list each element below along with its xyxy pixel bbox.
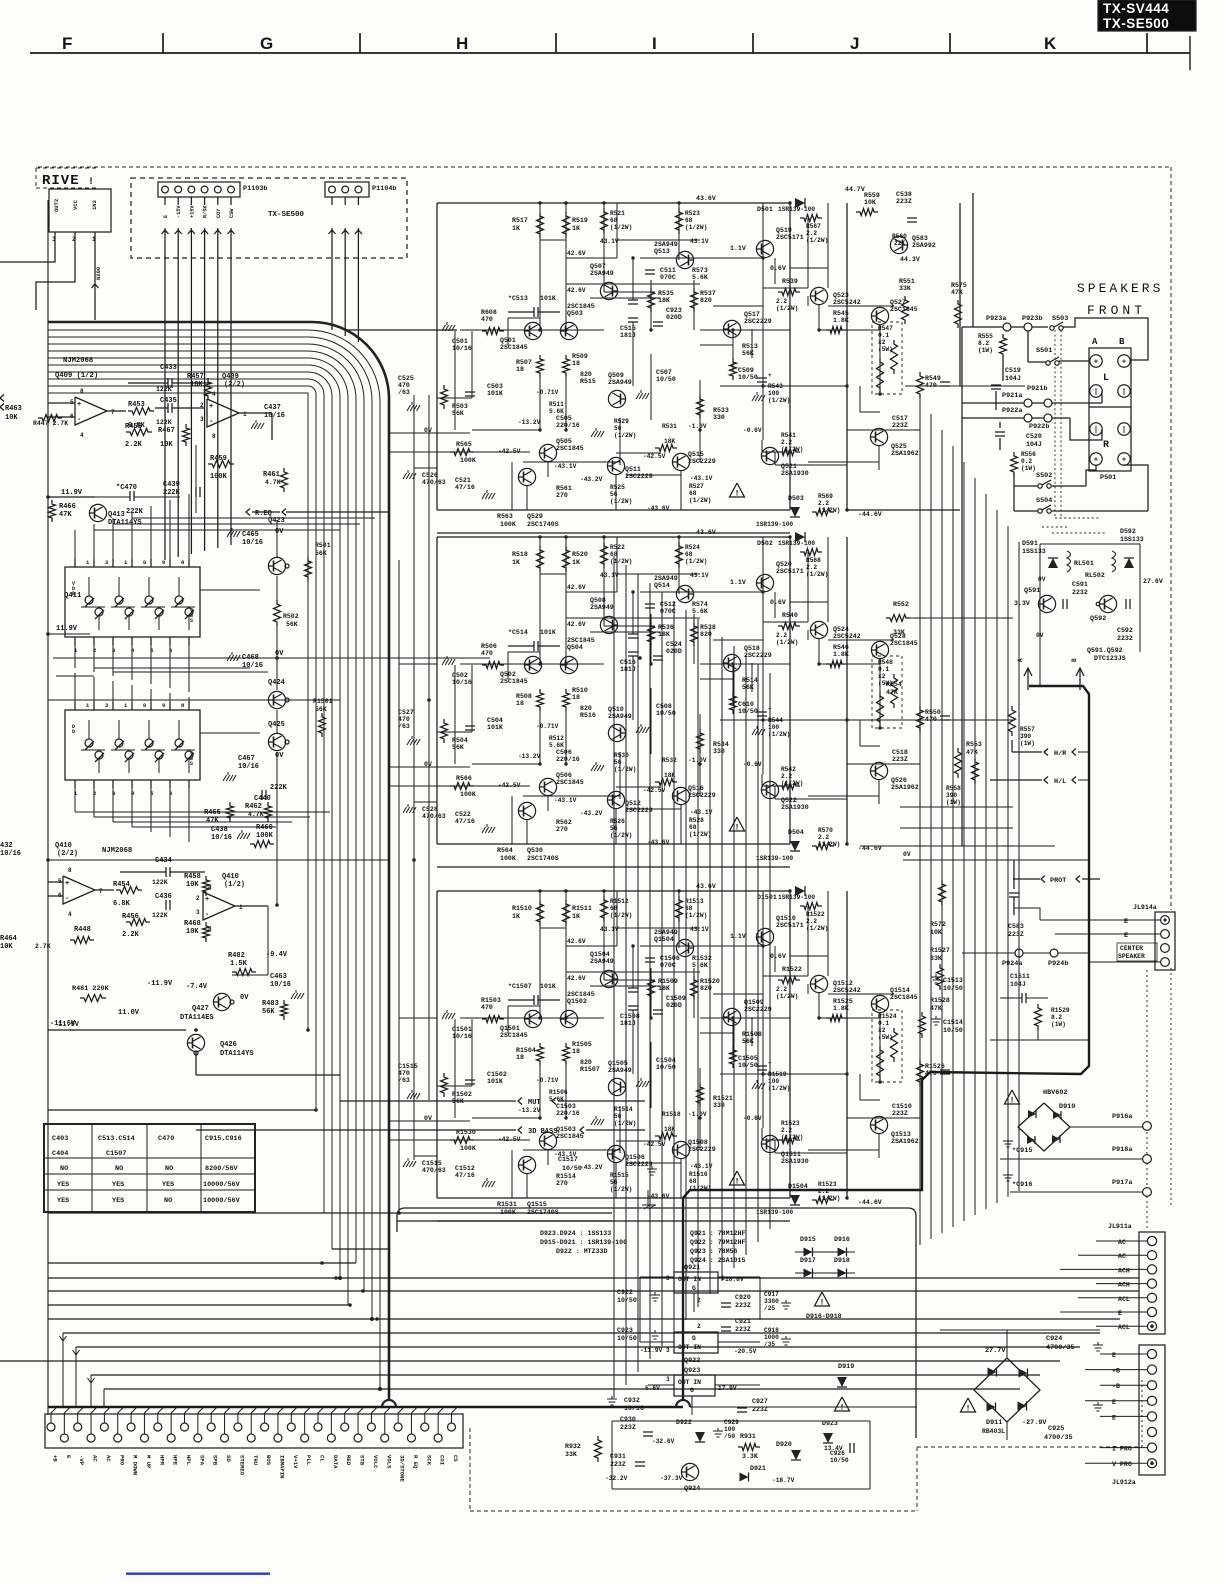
vertical feed wires to speaker section xyxy=(961,327,963,418)
svg-text:3: 3 xyxy=(666,1376,670,1383)
svg-text:/35: /35 xyxy=(764,1341,775,1348)
svg-text:R523: R523 xyxy=(685,210,700,217)
transistor channel1 driver xyxy=(518,468,535,485)
svg-text:7: 7 xyxy=(111,409,115,416)
svg-text:Q527: Q527 xyxy=(890,299,906,306)
svg-text:S503: S503 xyxy=(1052,315,1068,323)
svg-text:R501: R501 xyxy=(315,542,331,549)
svg-text:C512: C512 xyxy=(660,601,676,608)
svg-text:R1514: R1514 xyxy=(614,1106,633,1113)
svg-text:R1505: R1505 xyxy=(572,1041,592,1048)
svg-text:+: + xyxy=(768,706,772,713)
svg-text:181J: 181J xyxy=(620,1020,636,1027)
svg-text:C403: C403 xyxy=(52,1135,68,1143)
svg-text:2SC2229: 2SC2229 xyxy=(625,807,653,814)
connector P1103b xyxy=(158,182,240,197)
svg-text:G: G xyxy=(692,1335,696,1342)
capacitor C932 10/16 xyxy=(611,1396,613,1399)
svg-text:C1501: C1501 xyxy=(452,1026,472,1033)
svg-text:A: A xyxy=(1092,337,1098,347)
svg-text:7: 7 xyxy=(99,888,103,895)
svg-text:10/50: 10/50 xyxy=(738,708,758,715)
svg-text:68: 68 xyxy=(689,824,697,831)
svg-text:2.2: 2.2 xyxy=(776,986,787,993)
svg-text:P922b: P922b xyxy=(1029,423,1049,431)
svg-text:*C513: *C513 xyxy=(508,295,528,302)
svg-text:2SA1962: 2SA1962 xyxy=(891,1138,919,1145)
svg-text:C1505: C1505 xyxy=(738,1055,758,1062)
svg-text:NO: NO xyxy=(164,1197,172,1205)
svg-text:222K: 222K xyxy=(270,784,288,792)
transistor channel3 driver xyxy=(518,1156,535,1173)
svg-text:R464: R464 xyxy=(0,935,17,943)
svg-text:10K: 10K xyxy=(864,199,876,206)
svg-text:Q508: Q508 xyxy=(590,597,606,604)
channel3 internal verticals xyxy=(539,891,541,936)
svg-text:56: 56 xyxy=(610,1179,618,1186)
resistor R459 100K xyxy=(208,461,234,468)
svg-text:101K: 101K xyxy=(540,983,556,990)
svg-text:8: 8 xyxy=(212,433,216,440)
svg-text:R504: R504 xyxy=(452,737,468,744)
svg-text:22K: 22K xyxy=(894,240,905,247)
svg-text:-B: -B xyxy=(1112,1383,1120,1390)
op-amp Q409 (2/2) xyxy=(207,399,239,427)
svg-text:AC: AC xyxy=(1118,1239,1126,1246)
svg-text:R546: R546 xyxy=(833,644,849,651)
svg-text:2SA949: 2SA949 xyxy=(590,958,614,965)
svg-text:Q409: Q409 xyxy=(222,373,239,381)
svg-text:C515: C515 xyxy=(620,325,636,332)
svg-text:R537: R537 xyxy=(700,290,716,297)
svg-text:/63: /63 xyxy=(398,1077,410,1084)
resistor R1529 8.2 (1W) xyxy=(1035,1004,1042,1030)
svg-text:-18.7V: -18.7V xyxy=(772,1477,795,1484)
svg-text:10/50: 10/50 xyxy=(562,1165,582,1172)
svg-text:R568: R568 xyxy=(806,557,821,564)
svg-text:2SA949: 2SA949 xyxy=(654,241,678,248)
svg-text:CSW: CSW xyxy=(229,208,235,218)
svg-text:020D: 020D xyxy=(666,314,682,321)
svg-text:NO: NO xyxy=(115,1165,123,1173)
svg-text:18.8V: 18.8V xyxy=(725,1276,744,1283)
svg-text:2SC2229: 2SC2229 xyxy=(625,473,653,480)
svg-text:R1524: R1524 xyxy=(878,1013,897,1020)
svg-text:220/16: 220/16 xyxy=(556,756,580,763)
svg-text:x2: x2 xyxy=(878,339,886,346)
dashed board boundary right edge xyxy=(1170,167,1172,910)
wire 11.9V node xyxy=(95,496,130,498)
svg-text:C470: C470 xyxy=(158,1135,174,1143)
svg-text:(1/2W): (1/2W) xyxy=(614,1120,636,1127)
svg-text:270: 270 xyxy=(556,492,568,499)
svg-text:P918a: P918a xyxy=(1112,1146,1132,1154)
svg-text:(1W): (1W) xyxy=(1020,740,1035,747)
svg-text:10/50: 10/50 xyxy=(656,1064,676,1071)
svg-text:(1/2W): (1/2W) xyxy=(685,558,707,565)
svg-text:0: 0 xyxy=(143,702,146,709)
svg-text:R506: R506 xyxy=(481,643,497,650)
svg-text:TX-SE500: TX-SE500 xyxy=(268,211,305,219)
capacitor C922 10/50 xyxy=(654,1292,656,1295)
svg-text:R542: R542 xyxy=(781,766,796,773)
svg-text:G: G xyxy=(260,34,273,53)
capacitor C916 xyxy=(1007,1172,1009,1175)
svg-text:NJM2068: NJM2068 xyxy=(63,357,93,365)
svg-text:/63: /63 xyxy=(398,723,410,730)
svg-text:D910: D910 xyxy=(1059,1103,1075,1111)
svg-text:(2/2): (2/2) xyxy=(57,850,78,858)
svg-text:-1.0V: -1.0V xyxy=(688,757,707,764)
resistor R453 6.8K xyxy=(128,408,154,415)
svg-text:R454: R454 xyxy=(113,881,130,889)
svg-text:R1512: R1512 xyxy=(610,898,629,905)
resistor R558 390 (1W) xyxy=(955,748,962,778)
svg-text:1.8K: 1.8K xyxy=(833,651,849,658)
svg-text:*C1507: *C1507 xyxy=(508,983,532,990)
svg-text:(1/2W): (1/2W) xyxy=(610,224,632,231)
svg-text:101K: 101K xyxy=(540,629,556,636)
svg-text:2: 2 xyxy=(196,895,200,902)
svg-text:1K: 1K xyxy=(572,225,580,232)
svg-text:68: 68 xyxy=(610,217,618,224)
svg-text:C1514: C1514 xyxy=(943,1019,963,1026)
svg-text:D915-D921 : 1SR139-100: D915-D921 : 1SR139-100 xyxy=(540,1239,627,1246)
svg-text:JL914a: JL914a xyxy=(1133,904,1157,911)
svg-text:/25: /25 xyxy=(764,1305,775,1312)
svg-text:0V: 0V xyxy=(275,650,284,658)
svg-text:220/16: 220/16 xyxy=(556,422,580,429)
svg-text:C433: C433 xyxy=(160,364,177,372)
svg-text:R1514: R1514 xyxy=(556,1173,576,1180)
svg-text:C507: C507 xyxy=(656,369,672,376)
svg-text:070C: 070C xyxy=(660,962,676,969)
svg-text:R539: R539 xyxy=(782,278,798,285)
svg-text:2.2: 2.2 xyxy=(818,1188,829,1195)
svg-text:Q923 : 78M56: Q923 : 78M56 xyxy=(690,1248,738,1255)
svg-text:2SC2229: 2SC2229 xyxy=(625,1161,653,1168)
svg-text:0V: 0V xyxy=(275,752,284,760)
svg-text:Q1504: Q1504 xyxy=(654,936,674,943)
svg-text:P923b: P923b xyxy=(1022,315,1042,323)
svg-text:(1/2W): (1/2W) xyxy=(610,1186,632,1193)
svg-text:56K: 56K xyxy=(742,350,754,357)
svg-text:C468: C468 xyxy=(242,654,259,662)
svg-text:Q413: Q413 xyxy=(108,511,125,519)
svg-text:10K: 10K xyxy=(5,414,18,422)
svg-text:33K: 33K xyxy=(565,1451,577,1458)
svg-text:R526: R526 xyxy=(610,818,625,825)
svg-text:8: 8 xyxy=(80,388,84,395)
svg-text:C591: C591 xyxy=(1072,581,1088,588)
svg-text:C1506: C1506 xyxy=(660,955,680,962)
svg-text:(1/2W): (1/2W) xyxy=(806,237,828,244)
svg-text:-: - xyxy=(77,416,81,424)
svg-text:223Z: 223Z xyxy=(735,1326,751,1333)
connector P924a P924b xyxy=(1015,949,1023,957)
ground near D922 xyxy=(717,1428,719,1431)
svg-text:C917: C917 xyxy=(764,1291,779,1298)
svg-text:Q426: Q426 xyxy=(220,1041,237,1049)
svg-text:Q509: Q509 xyxy=(608,372,624,379)
svg-text:D591: D591 xyxy=(1022,540,1038,547)
dashed sub-board box TX-SE500 xyxy=(131,178,407,258)
svg-text:56K: 56K xyxy=(742,1038,754,1045)
svg-text:10K: 10K xyxy=(0,943,13,951)
svg-text:(1/2W): (1/2W) xyxy=(776,993,798,1000)
svg-text:C1509: C1509 xyxy=(666,995,686,1002)
svg-text:5.6K: 5.6K xyxy=(549,408,564,415)
wire central bundle verticals xyxy=(613,556,615,1398)
svg-text:27.6V: 27.6V xyxy=(1143,578,1163,585)
svg-text:56: 56 xyxy=(614,1113,622,1120)
svg-text:Q510: Q510 xyxy=(608,706,624,713)
svg-text:2SC1845: 2SC1845 xyxy=(567,637,595,644)
svg-text:C528: C528 xyxy=(422,806,438,813)
channel1 junction dots xyxy=(538,201,541,204)
svg-text:101K: 101K xyxy=(487,724,503,731)
svg-text:R543: R543 xyxy=(768,383,783,390)
svg-text:47K: 47K xyxy=(59,511,72,519)
warning symbol channel2 xyxy=(730,817,745,831)
svg-text:R1520: R1520 xyxy=(700,978,720,985)
table capacitor options xyxy=(44,1124,255,1212)
svg-text:Q514: Q514 xyxy=(654,582,670,589)
svg-text:-0.71V: -0.71V xyxy=(536,723,559,730)
capacitor C1513 10/50 xyxy=(935,974,937,977)
svg-text:18K: 18K xyxy=(190,381,203,389)
svg-text:1K: 1K xyxy=(572,559,580,566)
svg-text:-1.0V: -1.0V xyxy=(688,1111,707,1118)
svg-text:(1/2W): (1/2W) xyxy=(614,766,636,773)
svg-text:104J: 104J xyxy=(1010,981,1026,988)
svg-text:(1/2W): (1/2W) xyxy=(689,1185,711,1192)
svg-text:R1507: R1507 xyxy=(580,1066,600,1073)
svg-text:(1/2W): (1/2W) xyxy=(806,571,828,578)
svg-text:AC: AC xyxy=(105,1455,112,1462)
svg-text:2SA992: 2SA992 xyxy=(912,242,936,249)
wire channel input stubs xyxy=(390,451,437,453)
svg-text:R528: R528 xyxy=(689,817,704,824)
warning symbol channel1 xyxy=(730,483,745,497)
svg-text:Q524: Q524 xyxy=(833,626,849,633)
svg-text:/63: /63 xyxy=(398,389,410,396)
svg-text:-0.71V: -0.71V xyxy=(536,1077,559,1084)
svg-text:104J: 104J xyxy=(1026,441,1042,448)
svg-text:43.1V: 43.1V xyxy=(600,572,619,579)
svg-text:820: 820 xyxy=(580,371,592,378)
svg-text:Q1506: Q1506 xyxy=(625,1154,645,1161)
svg-text:56K: 56K xyxy=(742,684,754,691)
svg-text:2.2K: 2.2K xyxy=(125,441,143,449)
svg-text:R514: R514 xyxy=(742,677,758,684)
svg-text:470/63: 470/63 xyxy=(422,1167,446,1174)
svg-text:Q520: Q520 xyxy=(776,561,792,568)
junction hump bus A xyxy=(382,1400,396,1407)
svg-text:1SR139-100: 1SR139-100 xyxy=(756,521,793,528)
svg-text:18K: 18K xyxy=(664,1126,675,1133)
svg-text:0.1: 0.1 xyxy=(878,666,889,673)
svg-text:E: E xyxy=(1112,1399,1116,1406)
svg-text:Q424: Q424 xyxy=(268,679,285,687)
svg-text:x2: x2 xyxy=(878,1027,886,1034)
svg-text:18: 18 xyxy=(516,700,524,707)
svg-text:R567: R567 xyxy=(806,223,821,230)
svg-text:223Z: 223Z xyxy=(892,422,908,429)
svg-text:SPEAKER: SPEAKER xyxy=(1118,953,1145,960)
svg-text:+: + xyxy=(209,403,213,411)
svg-text:R453: R453 xyxy=(128,401,145,409)
svg-text:100: 100 xyxy=(768,1078,779,1085)
svg-text:R516: R516 xyxy=(580,712,596,719)
svg-text:*C915: *C915 xyxy=(1012,1147,1032,1155)
svg-text:R549: R549 xyxy=(925,375,941,382)
svg-text:R559: R559 xyxy=(864,192,880,199)
channel3 junction dots xyxy=(538,889,541,892)
svg-text:2SC1845: 2SC1845 xyxy=(556,779,584,786)
svg-text:R572: R572 xyxy=(930,921,946,928)
svg-text:R555: R555 xyxy=(978,333,993,340)
svg-text:33K: 33K xyxy=(899,285,911,292)
svg-text:Q922: Q922 xyxy=(684,1357,700,1365)
svg-text:Q519: Q519 xyxy=(776,227,792,234)
channel3 block outline wires xyxy=(437,890,790,892)
svg-text:-: - xyxy=(209,418,213,426)
svg-text:(1/2W): (1/2W) xyxy=(768,1085,790,1092)
svg-text:11.9V: 11.9V xyxy=(61,489,83,497)
svg-text:R1518: R1518 xyxy=(662,1111,681,1118)
svg-text:C404: C404 xyxy=(52,1150,68,1158)
svg-text:R1525: R1525 xyxy=(833,998,853,1005)
PSU internal wires xyxy=(639,1277,641,1342)
svg-text:-0.6V: -0.6V xyxy=(743,761,762,768)
svg-text:Q410: Q410 xyxy=(55,842,72,850)
svg-text:10/50: 10/50 xyxy=(738,1062,758,1069)
svg-text:ACL: ACL xyxy=(1118,1296,1130,1303)
svg-text:47/16: 47/16 xyxy=(455,818,475,825)
svg-text:YES: YES xyxy=(112,1197,124,1205)
svg-text:Q502: Q502 xyxy=(500,671,516,678)
svg-text:R511: R511 xyxy=(549,401,564,408)
svg-text:C520: C520 xyxy=(1026,433,1042,440)
svg-text:RB403L: RB403L xyxy=(982,1428,1005,1435)
resistor R1510 xyxy=(537,900,544,926)
svg-text:OUT IN: OUT IN xyxy=(678,1379,701,1386)
svg-text:2.2: 2.2 xyxy=(781,773,792,780)
grid ruler line xyxy=(30,52,1190,54)
svg-text:(1/2): (1/2) xyxy=(224,881,245,889)
svg-text:2SC1845: 2SC1845 xyxy=(500,678,528,685)
svg-text:C519: C519 xyxy=(1005,367,1021,374)
svg-text:2SC2229: 2SC2229 xyxy=(688,1146,716,1153)
svg-text:!: ! xyxy=(88,177,94,188)
svg-text:-: - xyxy=(205,911,209,919)
svg-text:2SC2229: 2SC2229 xyxy=(744,318,772,325)
svg-text:R483: R483 xyxy=(262,1000,279,1008)
svg-text:-20.5V: -20.5V xyxy=(734,1348,757,1355)
svg-text:Q1508: Q1508 xyxy=(688,1139,708,1146)
svg-text:270: 270 xyxy=(556,1180,568,1187)
channel3 internal horizontals xyxy=(460,1017,604,1019)
svg-text:Q425: Q425 xyxy=(268,721,285,729)
transistor Q427 DTA114ES xyxy=(213,993,230,1010)
svg-text:VCC: VCC xyxy=(72,199,79,210)
svg-text:D921: D921 xyxy=(750,1465,766,1472)
svg-text:C508: C508 xyxy=(656,703,672,710)
svg-text:Q1503: Q1503 xyxy=(556,1126,576,1133)
svg-text:18K: 18K xyxy=(658,631,670,638)
svg-text:Q505: Q505 xyxy=(556,438,572,445)
svg-text:68: 68 xyxy=(689,1178,697,1185)
svg-text:10/50: 10/50 xyxy=(617,1297,637,1304)
svg-text:18K: 18K xyxy=(658,297,670,304)
svg-text:BOS: BOS xyxy=(265,1455,272,1466)
svg-text:+: + xyxy=(768,1060,772,1067)
svg-text:R561: R561 xyxy=(556,485,572,492)
svg-text:0V: 0V xyxy=(1038,576,1046,583)
svg-text:COI: COI xyxy=(439,1455,446,1465)
IC box top-left (cut) xyxy=(49,189,111,232)
svg-text:C525: C525 xyxy=(398,375,414,382)
svg-text:DATA: DATA xyxy=(332,1455,339,1469)
dashed board boundary top edge xyxy=(38,166,1171,168)
svg-text:18K: 18K xyxy=(664,772,675,779)
svg-text:R1516: R1516 xyxy=(689,1171,708,1178)
warning symbol near D911 xyxy=(961,1398,976,1412)
connector strip pins and labels xyxy=(47,1423,55,1431)
svg-text:43.1V: 43.1V xyxy=(690,572,709,579)
transistor Q592 xyxy=(1099,595,1116,612)
svg-text:HBV602: HBV602 xyxy=(1043,1089,1067,1097)
svg-text:E: E xyxy=(1124,918,1128,926)
svg-text:CENTER: CENTER xyxy=(1120,945,1143,952)
svg-text:Q522: Q522 xyxy=(781,797,797,804)
svg-text:47K: 47K xyxy=(206,817,219,825)
svg-text:R562: R562 xyxy=(556,819,572,826)
svg-text:Q526: Q526 xyxy=(891,777,907,784)
svg-text:ACL: ACL xyxy=(1118,1324,1130,1331)
svg-text:18: 18 xyxy=(572,694,580,701)
svg-text:ACH: ACH xyxy=(1118,1282,1130,1289)
svg-text:47K: 47K xyxy=(951,289,963,296)
resistor R1511 xyxy=(563,900,570,926)
svg-text:R1502: R1502 xyxy=(452,1091,472,1098)
svg-text:4: 4 xyxy=(212,391,216,398)
svg-text:2SA949: 2SA949 xyxy=(608,1067,632,1074)
resistor R520 xyxy=(563,546,570,572)
svg-text:JL911a: JL911a xyxy=(1108,1223,1132,1230)
svg-text:C1510: C1510 xyxy=(892,1103,912,1110)
svg-text:|: | xyxy=(1122,427,1126,435)
svg-text:3: 3 xyxy=(200,416,204,423)
svg-text:R1522: R1522 xyxy=(782,966,802,973)
switch IC Q411 xyxy=(65,567,200,637)
svg-text:D919: D919 xyxy=(838,1363,854,1371)
svg-text:1N2: 1N2 xyxy=(91,200,98,210)
svg-text:2SA949: 2SA949 xyxy=(654,575,678,582)
svg-text:43.6V: 43.6V xyxy=(696,195,716,202)
svg-text:R560: R560 xyxy=(892,233,907,240)
svg-text:R1506: R1506 xyxy=(549,1089,568,1096)
wire long horizontals lower left xyxy=(48,1109,316,1111)
svg-text:2SC1845: 2SC1845 xyxy=(890,306,918,313)
svg-text:C926: C926 xyxy=(830,1450,845,1457)
warning symbol channel3 xyxy=(730,1171,745,1185)
svg-text:J: J xyxy=(850,34,859,53)
svg-text:0V: 0V xyxy=(240,994,249,1002)
svg-text:-32.2V: -32.2V xyxy=(605,1475,628,1482)
svg-text:HPL: HPL xyxy=(185,1455,192,1466)
